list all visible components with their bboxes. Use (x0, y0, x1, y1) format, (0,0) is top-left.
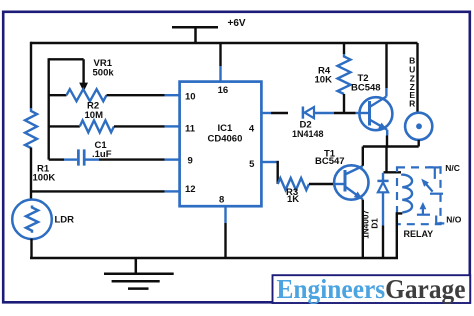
buzzer (405, 43, 432, 147)
svg-text:1K: 1K (287, 194, 299, 205)
wire relay coil stub (384, 171, 402, 173)
wire node to pin12 (31, 190, 165, 192)
label N/O (446, 215, 462, 225)
svg-text:D1: D1 (370, 218, 380, 229)
pin 9 (188, 155, 193, 166)
wire D1 to rail (382, 226, 384, 259)
pin 16 (218, 85, 229, 96)
svg-text:8: 8 (219, 194, 224, 205)
svg-text:.1uF: .1uF (92, 149, 112, 160)
svg-text:10K: 10K (315, 75, 333, 86)
transistor Q1 T1 BC547 (334, 165, 368, 199)
wire D2 to T2 base (334, 112, 370, 114)
op-amp U1 IC1 CD4060 box (180, 82, 262, 207)
potentiometer VR1 (49, 59, 179, 101)
label N/C (445, 163, 460, 173)
diode D2 (303, 107, 334, 119)
svg-text:LDR: LDR (55, 215, 75, 226)
svg-text:RELAY: RELAY (404, 229, 434, 239)
svg-text:N/C: N/C (445, 163, 460, 173)
svg-text:CD4060: CD4060 (208, 133, 243, 144)
wire bottom rail (30, 257, 398, 260)
label R2 (85, 100, 104, 121)
svg-text:10: 10 (185, 91, 196, 102)
svg-text:BC547: BC547 (315, 156, 345, 167)
wire T1 collector (362, 147, 364, 166)
pin 4 (249, 124, 255, 135)
label RELAY (404, 229, 434, 239)
svg-text:16: 16 (218, 85, 229, 96)
label C1 (92, 140, 112, 160)
label +6V (228, 18, 246, 29)
wire left bus B (48, 58, 50, 159)
transistor Q2 T2 BC548 (359, 88, 392, 136)
wire relay coil to rail (397, 213, 403, 258)
svg-text:100K: 100K (33, 173, 56, 184)
label BUZZER (409, 55, 415, 108)
label T2 BC548 (351, 73, 381, 93)
svg-text:4: 4 (249, 124, 255, 135)
wire T2 emitter (386, 136, 388, 148)
relay box (397, 167, 441, 224)
resistor R1 (25, 108, 37, 148)
svg-text:9: 9 (188, 155, 193, 166)
svg-text:1N4007: 1N4007 (360, 210, 370, 239)
wire R1 to LDR (30, 148, 32, 201)
svg-text:EngineersGarage: EngineersGarage (277, 273, 466, 304)
wire pin8 (224, 206, 226, 258)
wire pin12 stub (165, 190, 180, 192)
diode D1 (377, 173, 388, 226)
resistor R4 (338, 43, 351, 113)
pin 12 (185, 184, 196, 195)
svg-text:10M: 10M (85, 110, 104, 121)
wire top rail (31, 42, 418, 45)
svg-text:1N4148: 1N4148 (292, 129, 324, 139)
pin 10 (185, 91, 196, 102)
wire collector bus horizontal (363, 145, 419, 147)
svg-text:R: R (409, 98, 415, 108)
label D2 (292, 119, 324, 138)
relay contact N/C (421, 167, 443, 193)
pin 5 (249, 159, 255, 170)
label R1 (33, 164, 56, 184)
wire pin4 (261, 112, 288, 114)
label 1N4007 (360, 210, 370, 239)
label R3 (286, 187, 299, 205)
wire T1 emitter (362, 200, 364, 258)
label VR1 (93, 58, 115, 78)
label LDR (55, 215, 75, 226)
svg-text:12: 12 (185, 184, 196, 195)
wire T2 collector (385, 43, 387, 88)
capacitor C1 (49, 149, 179, 165)
logo text (277, 273, 466, 304)
pin 11 (185, 124, 196, 135)
resistor R2 (49, 120, 179, 132)
label T1 BC547 (315, 148, 345, 167)
wire LDR to ground rail (30, 239, 32, 258)
svg-text:BC548: BC548 (351, 82, 381, 93)
wire relay feed (385, 147, 387, 174)
resistor R3 (278, 178, 345, 190)
svg-text:+6V: +6V (228, 18, 246, 29)
label D1 (370, 218, 380, 229)
relay coil (402, 174, 412, 213)
logo box (273, 275, 471, 303)
wire pin16 (219, 43, 221, 82)
relay contact N/O (417, 202, 444, 223)
wire left bus top (30, 42, 32, 109)
svg-text:11: 11 (185, 124, 196, 135)
pin 8 (219, 194, 224, 205)
label IC1 CD4060 (208, 123, 243, 144)
label R4 (315, 65, 333, 85)
svg-text:500k: 500k (93, 67, 115, 78)
wire pin5 (261, 161, 277, 184)
LDR (12, 200, 52, 240)
svg-text:N/O: N/O (446, 215, 462, 225)
ground (104, 258, 174, 289)
power +6V symbol (172, 27, 218, 43)
svg-text:5: 5 (249, 159, 255, 170)
